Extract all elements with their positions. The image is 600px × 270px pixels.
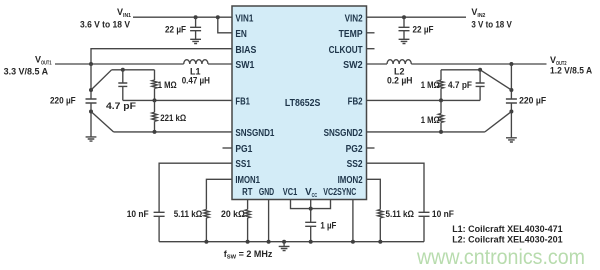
node bus dot GND [267, 240, 271, 244]
node bus dot VCC cap [309, 240, 313, 244]
svg-text:1 MΩ: 1 MΩ [421, 80, 440, 90]
resistor R2 221k [152, 100, 157, 131]
wire VIN2 [366, 16, 466, 18]
node bus dot R7 [378, 240, 382, 244]
node VIN1 wire [133, 16, 232, 18]
resistor R7 5.11k [378, 210, 383, 242]
svg-text:SW1: SW1 [235, 60, 254, 71]
svg-text:TEMP: TEMP [339, 29, 363, 40]
svg-text:L2: Coilcraft XEL4030-201: L2: Coilcraft XEL4030-201 [452, 235, 562, 245]
wire divider top line left [112, 69, 155, 71]
wire IMON2 [366, 179, 380, 209]
wire PG1 stub [223, 147, 233, 149]
node sense dot top C7 [509, 88, 513, 92]
svg-text:0.2 µH: 0.2 µH [387, 76, 413, 86]
capacitor C1 22uF [190, 17, 201, 39]
svg-text:1 MΩ: 1 MΩ [158, 80, 177, 90]
capacitor C9 10nF [419, 212, 430, 241]
svg-text:SW2: SW2 [343, 60, 363, 71]
wire SW2 / VOUT2 [366, 63, 547, 65]
node junction dot VOUT2 [509, 62, 513, 66]
resistor R3 5.11k [204, 210, 209, 242]
node junction dot FB2 divider [439, 98, 443, 102]
svg-text:1 MΩ: 1 MΩ [421, 115, 440, 125]
svg-text:4.7 pF: 4.7 pF [106, 101, 137, 111]
inductor L1 [184, 60, 208, 64]
ground for C2 [86, 137, 97, 141]
node junction dot VIN2/C6 [402, 15, 406, 19]
wire PG2 stub [366, 147, 375, 149]
inductor L2 [387, 60, 411, 64]
node junction dot SNSGND1 divider [153, 130, 157, 134]
capacitor C4 10nF [154, 212, 165, 241]
wire IMON1 [206, 179, 232, 209]
node junction dot C8 top [478, 68, 482, 72]
node junction dot VOUT1 [89, 62, 93, 66]
node sense dot bottom C7 [509, 110, 513, 114]
ground for C1 [190, 39, 201, 43]
svg-text:20 kΩ: 20 kΩ [221, 209, 245, 219]
wire FB2 line [366, 99, 480, 101]
svg-text:22 µF: 22 µF [413, 25, 434, 35]
svg-text:GND: GND [259, 187, 274, 198]
wire GND stub [268, 200, 270, 242]
svg-text:L1: Coilcraft XEL4030-471: L1: Coilcraft XEL4030-471 [452, 224, 562, 234]
capacitor C2 220uF [86, 64, 97, 137]
wire EN branch [218, 17, 232, 33]
svg-text:1 µF: 1 µF [320, 221, 336, 231]
ground for C7 [506, 138, 517, 142]
svg-text:SNSGND2: SNSGND2 [324, 128, 363, 139]
resistor R1 1M [152, 70, 157, 101]
svg-text:3 V to 18 V: 3 V to 18 V [471, 19, 511, 29]
wire CLKOUT stub [366, 48, 375, 50]
node junction dot C3 top [121, 68, 125, 72]
svg-text:5.11 kΩ: 5.11 kΩ [386, 209, 415, 219]
resistor R5 1M [438, 70, 443, 101]
svg-text:3.3 V/8.5 A: 3.3 V/8.5 A [4, 66, 49, 76]
node bus dot SYNC [351, 240, 355, 244]
wire sense diagonal bottom right [485, 112, 512, 132]
wire TEMP stub [366, 32, 375, 34]
svg-text:220 µF: 220 µF [50, 96, 76, 106]
capacitor C6 22uF [399, 17, 410, 39]
node sense dot bottom C2 [89, 110, 93, 114]
svg-text:3.6 V to 18 V: 3.6 V to 18 V [80, 19, 130, 29]
svg-text:4.7 pF: 4.7 pF [448, 80, 472, 90]
wire VC2 [311, 200, 331, 209]
node junction dot VCC [309, 207, 313, 211]
wire SS1 [159, 163, 232, 212]
wire ground bus [159, 241, 424, 243]
svg-text:VIN1: VIN1 [235, 13, 253, 24]
svg-text:PG2: PG2 [346, 144, 363, 155]
node bus dot R3 [204, 240, 208, 244]
node bus dot ground symbol [282, 240, 286, 244]
svg-text:220 µF: 220 µF [519, 96, 546, 106]
svg-text:www.cntronics.com: www.cntronics.com [416, 246, 585, 269]
svg-text:CLKOUT: CLKOUT [329, 45, 363, 56]
wire divider top line right [441, 69, 480, 71]
node junction dot FB1 divider [153, 98, 157, 102]
capacitor C8 4.7pF [476, 70, 485, 101]
node junction dot VIN1/C1 [194, 15, 198, 19]
svg-text:VIN2: VIN2 [345, 13, 363, 24]
node junction dot VIN1/EN [216, 15, 220, 19]
svg-text:SS1: SS1 [235, 159, 251, 170]
wire VC1 [291, 200, 311, 209]
svg-text:VC2: VC2 [323, 187, 337, 198]
ground for C6 [399, 39, 410, 43]
svg-text:IMON2: IMON2 [338, 175, 363, 186]
resistor R4 20k [245, 210, 250, 242]
wire SNSGND2 line [366, 131, 485, 133]
svg-text:221 kΩ: 221 kΩ [160, 113, 186, 123]
svg-text:PG1: PG1 [235, 144, 252, 155]
node junction dot SNSGND2 divider [439, 130, 443, 134]
svg-text:22 µF: 22 µF [165, 25, 186, 35]
wire BIAS to VOUT1 node [91, 49, 232, 64]
svg-text:10 nF: 10 nF [432, 209, 454, 219]
capacitor C7 220uF [506, 64, 517, 138]
wire VOUT1 [55, 63, 232, 65]
resistor R6 1M [438, 100, 443, 131]
op-amp U1 LT8652S body [232, 6, 367, 200]
wire SNSGND1 line [114, 131, 233, 133]
svg-text:10 nF: 10 nF [127, 209, 149, 219]
node bus dot R4 [246, 240, 250, 244]
svg-text:RT: RT [242, 187, 252, 198]
wire SS2 [366, 163, 424, 212]
svg-text:IMON1: IMON1 [235, 175, 260, 186]
svg-text:BIAS: BIAS [235, 45, 256, 56]
svg-text:VC1: VC1 [283, 187, 298, 198]
svg-text:SS2: SS2 [347, 159, 363, 170]
svg-text:FB1: FB1 [235, 97, 250, 108]
svg-text:FB2: FB2 [348, 97, 363, 108]
wire FB1 line [123, 99, 232, 101]
capacitor C5 1uF [305, 222, 316, 241]
wire RT stub [247, 200, 249, 210]
svg-text:SNSGND1: SNSGND1 [235, 128, 274, 139]
svg-text:0.47 µH: 0.47 µH [182, 76, 210, 86]
svg-text:1.2 V/8.5 A: 1.2 V/8.5 A [550, 66, 593, 76]
ground on bus [279, 242, 290, 251]
wire VCC [310, 200, 312, 223]
svg-text:LT8652S: LT8652S [285, 98, 321, 109]
wire sense diagonal top right [480, 70, 511, 90]
wire SYNC [352, 200, 354, 242]
svg-text:EN: EN [235, 29, 247, 40]
capacitor C3 4.7pF [118, 70, 127, 101]
node sense dot top C2 [89, 88, 93, 92]
wire sense diagonal top left [91, 70, 112, 90]
svg-text:5.11 kΩ: 5.11 kΩ [174, 209, 203, 219]
wire sense diagonal bottom left [91, 112, 114, 132]
svg-text:SYNC: SYNC [337, 187, 356, 198]
